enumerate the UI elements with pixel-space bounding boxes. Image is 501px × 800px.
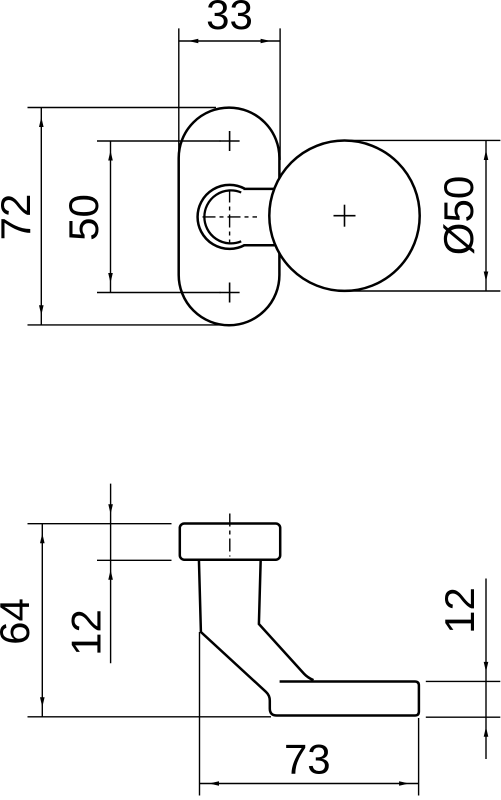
dimension 33 extension line right (279, 28, 281, 160)
neck tube top line (244, 188, 278, 191)
neck vertical centerline (229, 190, 231, 244)
svg-text:50: 50 (60, 194, 107, 241)
dimension 12 left line (110, 484, 112, 664)
svg-text:72: 72 (0, 194, 39, 241)
dimension 12 right extension line bottom (426, 716, 501, 718)
svg-text:12: 12 (436, 587, 483, 634)
neck collar outer arc (198, 185, 245, 249)
dimension D50 extension line bottom (345, 290, 500, 292)
dimension 73 arrow right (399, 781, 409, 786)
dimension 72 arrow bottom (39, 305, 44, 315)
neck left edge, elbow and arm bottom/right/top outline (199, 559, 419, 716)
dimension 12 right line (485, 579, 487, 760)
dimension 64 extension line top (28, 523, 172, 525)
screw hole cross bottom (220, 283, 240, 303)
dimension 72 line (40, 108, 42, 325)
dimension 50 extension line top (97, 140, 221, 142)
dimension 12 right extension line top (426, 680, 501, 682)
screw hole cross top (220, 131, 240, 151)
dimension 64 arrow top (40, 533, 45, 543)
dimension 50 arrow bottom (108, 273, 113, 283)
rose vertical centerline (229, 514, 231, 557)
ball center cross (334, 205, 356, 227)
dimension 50 line (110, 141, 112, 293)
svg-text:12: 12 (62, 609, 109, 656)
dimension 12 right arrow bottom (outside, pointing up) (484, 727, 489, 737)
neck collar inner arc (204, 190, 241, 243)
dimension 33 line (179, 40, 280, 42)
dimension 50 arrow top (108, 151, 113, 161)
dimension D50 arrow bottom (484, 272, 489, 282)
dimension D50 extension line top (345, 139, 500, 141)
svg-text:73: 73 (284, 736, 331, 783)
dimension D50 arrow top (484, 150, 489, 160)
dimension D50 line (485, 140, 487, 291)
dimension 33 arrow left (188, 39, 198, 44)
dimension 64 line (41, 524, 43, 717)
neck right edge and elbow blend (259, 559, 314, 680)
dimension 64 extension line bottom (28, 716, 272, 718)
dimension 73 arrow left (209, 781, 219, 786)
dimension 12 left arrow top (outside, pointing down) (108, 504, 113, 514)
dimension 73 line (200, 783, 419, 785)
svg-text:33: 33 (206, 0, 253, 38)
svg-text:Ø50: Ø50 (435, 176, 482, 255)
dimension 12 right arrow top (outside, pointing down) (484, 662, 489, 672)
dimension 73 extension line left (199, 632, 201, 796)
dimension 72 arrow top (39, 117, 44, 127)
oval rose plate outline (179, 108, 280, 326)
neck tube bottom line (244, 244, 278, 247)
dimension 50 extension line bottom (97, 292, 221, 294)
dimension 33 extension line left (178, 28, 180, 160)
dimension 72 extension line top (28, 107, 217, 109)
dimension 64 arrow bottom (40, 697, 45, 707)
dimension 33 arrow right (261, 39, 271, 44)
dimension 12 left extension line bottom (97, 559, 172, 561)
dimension 72 extension line bottom (28, 324, 230, 326)
dimension 73 extension line right (418, 718, 420, 796)
dimension 12 left arrow bottom (outside, pointing up) (108, 570, 113, 580)
rose plate side outline (180, 524, 280, 560)
neck horizontal centerline (203, 216, 258, 218)
ball knob circle (269, 141, 419, 291)
svg-text:64: 64 (0, 598, 38, 645)
